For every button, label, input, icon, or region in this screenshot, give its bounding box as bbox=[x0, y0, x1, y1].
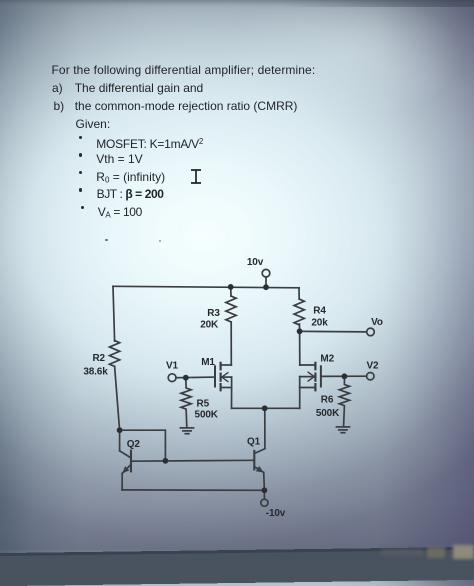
node V1 gate junction bbox=[183, 375, 189, 381]
svg-text:M1: M1 bbox=[201, 357, 215, 368]
transistor Q1 bbox=[254, 449, 265, 473]
svg-text:M2: M2 bbox=[320, 354, 334, 365]
wire R2 top lead bbox=[113, 286, 115, 341]
node Q2 collector junction bbox=[117, 427, 123, 433]
node 10v terminal junction bbox=[263, 284, 269, 290]
wire M2 drain lead bbox=[299, 331, 301, 365]
wire R3 top lead bbox=[230, 287, 232, 296]
wire Q1 collector lead bbox=[264, 408, 266, 448]
ground R6 bbox=[336, 427, 349, 433]
svg-text:V2: V2 bbox=[367, 361, 380, 372]
top dark photo edge bbox=[0, 0, 474, 10]
resistor R6 bbox=[339, 376, 349, 426]
wire Vo lead bbox=[300, 330, 367, 333]
node Vo junction bbox=[297, 328, 303, 334]
wire M1 gate lead bbox=[176, 376, 215, 379]
resistor R4 bbox=[294, 299, 304, 325]
terminal V2 bbox=[367, 373, 374, 380]
mosfet M2 bbox=[300, 363, 321, 409]
svg-text:10v: 10v bbox=[247, 257, 264, 268]
svg-text:38.6k: 38.6k bbox=[83, 367, 108, 378]
resistor R5 bbox=[181, 378, 191, 427]
wire -10v terminal lead bbox=[263, 490, 265, 499]
svg-text:20K: 20K bbox=[200, 320, 219, 331]
resistor R3 bbox=[226, 296, 236, 322]
text I-beam cursor bbox=[188, 168, 204, 185]
resistor R2 bbox=[110, 341, 120, 367]
wire top supply rail bbox=[113, 286, 299, 288]
wire 10v terminal lead bbox=[265, 277, 267, 287]
svg-text:Q2: Q2 bbox=[127, 439, 141, 450]
svg-text:R6: R6 bbox=[321, 394, 334, 405]
wire R3 bottom / M1 drain lead bbox=[230, 322, 232, 365]
wire R4 bottom lead bbox=[298, 324, 300, 331]
terminal Vo bbox=[367, 328, 375, 336]
bottom darkening above band bbox=[0, 505, 474, 550]
wire base line Q2-Q1 bbox=[131, 459, 254, 462]
svg-text:500K: 500K bbox=[316, 408, 340, 419]
terminal -10v bbox=[261, 499, 268, 506]
problem statement text bbox=[52, 63, 316, 77]
transistor Q2 bbox=[120, 430, 131, 473]
node mirror base junction bbox=[163, 458, 169, 464]
svg-text:Q1: Q1 bbox=[247, 437, 261, 448]
svg-text:20k: 20k bbox=[311, 318, 328, 329]
node supply tap junction (R3 top) bbox=[228, 284, 234, 290]
node V2 gate junction bbox=[342, 373, 348, 379]
terminal V1 bbox=[168, 374, 176, 382]
svg-text:R2: R2 bbox=[92, 353, 105, 364]
svg-text:-10v: -10v bbox=[266, 508, 286, 519]
wire R4 top lead bbox=[298, 288, 300, 299]
svg-text:R3: R3 bbox=[207, 308, 220, 319]
terminal 10v bbox=[262, 269, 270, 277]
wire M2 gate lead bbox=[321, 375, 367, 377]
wire R2 bottom lead bbox=[115, 366, 120, 430]
wire Q1 emitter lead bbox=[263, 473, 266, 491]
mosfet M1 bbox=[215, 363, 232, 409]
svg-text:R4: R4 bbox=[313, 306, 326, 317]
wire emitter rail to -10v node bbox=[122, 489, 264, 491]
ground R5 bbox=[180, 428, 193, 434]
bottom dark band (photo edge, slightly tilted) bbox=[0, 547, 474, 586]
svg-text:500K: 500K bbox=[195, 410, 219, 421]
svg-text:Vo: Vo bbox=[371, 317, 383, 328]
node common source tail junction bbox=[262, 405, 268, 411]
wire mirror collector-to-base tie bbox=[120, 430, 166, 461]
bottom-right blurry artifacts bbox=[381, 549, 423, 556]
faint smudge dots bbox=[105, 239, 108, 242]
node -10v rail junction bbox=[262, 487, 268, 493]
svg-text:R5: R5 bbox=[197, 399, 210, 410]
wire common source tail rail bbox=[232, 407, 300, 409]
wire Q2 emitter lead bbox=[121, 473, 123, 490]
svg-text:V1: V1 bbox=[166, 361, 179, 372]
